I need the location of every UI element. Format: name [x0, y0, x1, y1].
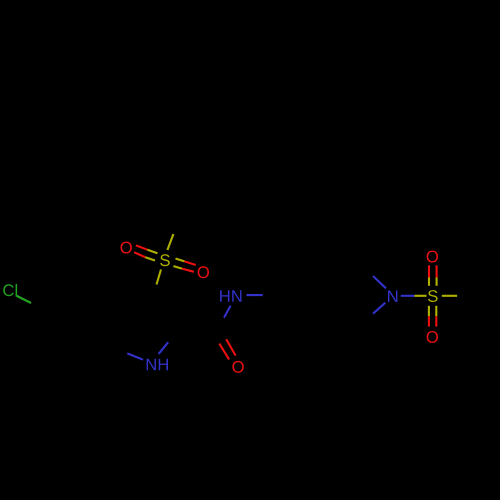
wire bond N1-C2 (blue half) [159, 342, 169, 354]
wire bond S2-CH3 (olive half) [442, 295, 457, 297]
wire bond N2-S2 [401, 295, 427, 297]
atom amide NH [220, 290, 241, 302]
wire bond S1-CH3 (olive half) [167, 234, 173, 250]
wire bond S1-C3 (olive half) [157, 270, 162, 285]
atom O1b (sulfonyl oxygen right) [198, 266, 209, 278]
wire double bond S1=O1b line 1 [176, 259, 196, 266]
wire double bond S2=O2b line 2 [435, 306, 437, 327]
atom O amide carbonyl [232, 361, 243, 373]
wire double bond S2=O2b line 1 [428, 306, 430, 327]
atom Cl (chlorine on indole C5) [3, 284, 17, 296]
atom N1H indole [147, 359, 168, 371]
wire bond N2-Cring lower (blue half) [373, 303, 385, 314]
wire double bond C=O amide line 1 (red half) [219, 344, 229, 360]
wire double bond C=O amide line 2 (red half) [226, 339, 235, 355]
wire double bond S1=O1a line 2 [134, 252, 155, 260]
atom S1 (methylsulfonyl on C3) [160, 254, 170, 266]
atom N2 (ring nitrogen, right) [388, 291, 397, 303]
wire double bond S2=O2a line 1 [428, 265, 430, 286]
atom O2a (sulfonyl oxygen top) [427, 251, 438, 263]
wire double bond S1=O1b line 2 [173, 266, 194, 272]
wire bond N1-C7a (blue half) [127, 353, 143, 359]
wire double bond S1=O1a line 1 [136, 245, 158, 253]
wire bond N2-Cring upper (blue half) [373, 276, 386, 288]
wire double bond S2=O2a line 2 [436, 265, 438, 286]
wire bond Namide-C(=O) (blue half) [224, 306, 231, 318]
atom S2 (methanesulfonyl right) [428, 290, 438, 302]
wire bond Cl-C5 (green half) [16, 296, 31, 304]
atom O1a (sulfonyl oxygen left) [121, 242, 132, 254]
wire bond Namide-CH ring (blue half) [247, 294, 263, 296]
atom O2b (sulfonyl oxygen bottom) [427, 331, 438, 343]
